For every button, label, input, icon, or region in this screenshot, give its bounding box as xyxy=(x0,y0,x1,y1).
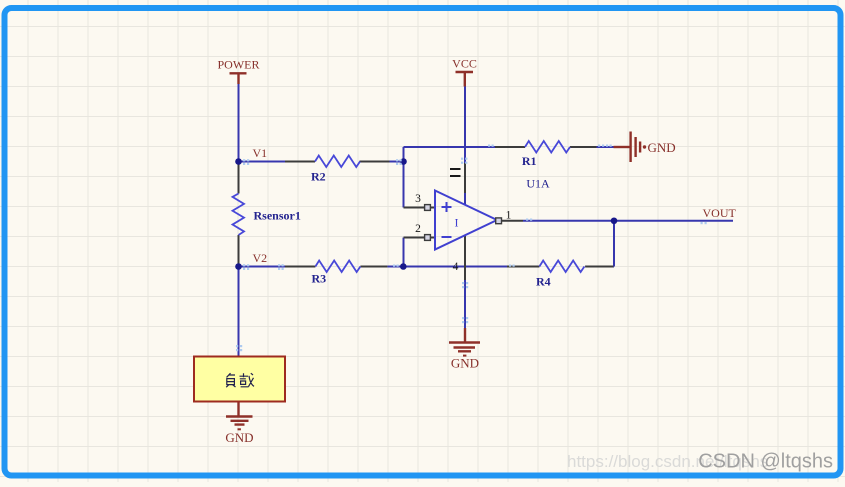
svg-text:2: 2 xyxy=(415,223,421,235)
svg-text:GND: GND xyxy=(451,356,479,371)
svg-text:I: I xyxy=(455,216,459,230)
svg-text:R3: R3 xyxy=(312,272,327,286)
svg-text:GND: GND xyxy=(648,140,676,155)
svg-text:POWER: POWER xyxy=(218,58,260,72)
svg-text:1: 1 xyxy=(506,210,512,222)
svg-text:VOUT: VOUT xyxy=(703,206,737,220)
svg-text:U1A: U1A xyxy=(526,177,550,191)
svg-text:3: 3 xyxy=(415,193,421,205)
svg-text:R2: R2 xyxy=(311,170,326,184)
svg-text:V2: V2 xyxy=(253,251,268,265)
svg-text:GND: GND xyxy=(225,430,253,445)
svg-text:Rsensor1: Rsensor1 xyxy=(254,209,301,223)
svg-text:VCC: VCC xyxy=(452,57,477,71)
svg-text:V1: V1 xyxy=(253,146,268,160)
svg-text:4: 4 xyxy=(453,261,459,273)
svg-text:R1: R1 xyxy=(522,154,537,168)
svg-text:CSDN @ltqshs: CSDN @ltqshs xyxy=(698,451,833,473)
svg-text:R4: R4 xyxy=(536,275,551,289)
